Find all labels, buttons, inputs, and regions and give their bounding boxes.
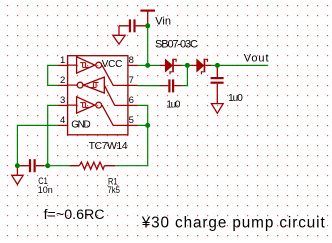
wire D1-D2 node to D2 — [187, 64, 192, 66]
wire R1 to pin 5 riser — [114, 125, 147, 165]
wire node A to C1 — [17, 165, 22, 167]
diode D1 (Schottky) — [160, 59, 182, 75]
svg-text:5: 5 — [129, 115, 134, 126]
svg-text:2: 2 — [60, 75, 65, 86]
wire Vout node to Vout label — [217, 64, 268, 66]
svg-text:Vout: Vout — [244, 53, 269, 65]
svg-text:f=~0.6RC: f=~0.6RC — [44, 207, 105, 222]
wire pin 4 to node A — [17, 125, 58, 165]
wire pins 5-6 loop — [138, 105, 148, 125]
svg-text:¥30 charge pump circuit: ¥30 charge pump circuit — [141, 215, 326, 232]
svg-text:VCC: VCC — [102, 59, 123, 70]
svg-text:1: 1 — [60, 55, 65, 66]
wire pin 7 to pump cap — [138, 85, 161, 87]
wire D2 to Vout node — [210, 64, 217, 66]
wire Vin riser — [147, 26, 149, 66]
junction Vout node — [215, 63, 220, 68]
svg-text:TC7W14: TC7W14 — [89, 140, 128, 152]
svg-text:1u0: 1u0 — [228, 93, 243, 104]
svg-text:3: 3 — [60, 95, 65, 106]
junction node A — [15, 163, 20, 168]
pin 6 lead — [128, 104, 138, 106]
diode D2 (Schottky) — [191, 59, 211, 75]
svg-text:8: 8 — [129, 55, 134, 66]
wire pin 3 to node B — [48, 105, 58, 165]
junction node B — [45, 163, 50, 168]
pin 2 lead — [58, 84, 68, 86]
wire pins 1-2 feedback loop — [48, 65, 58, 85]
svg-text:1u0: 1u0 — [166, 99, 180, 110]
junction pin 8 node — [145, 63, 150, 68]
capacitor (output 1u0) — [211, 66, 224, 103]
svg-text:6: 6 — [129, 95, 134, 106]
junction D1-D2 node — [185, 63, 190, 68]
pin 5 lead — [128, 124, 138, 126]
svg-text:7: 7 — [129, 75, 134, 86]
power symbol Vin — [140, 11, 155, 26]
svg-text:4: 4 — [60, 115, 65, 126]
svg-text:SB07-03C: SB07-03C — [155, 39, 198, 51]
ground (Vin bypass) — [113, 35, 125, 44]
ground (output cap) — [211, 104, 223, 114]
pin 7 lead — [128, 84, 138, 86]
junction Vin node — [145, 23, 150, 28]
wire pin8 node to D1 — [148, 64, 161, 66]
wire pin 8 to Vin node — [138, 64, 148, 66]
inverter gate 2 — [68, 77, 128, 105]
wire C1 to node B — [44, 165, 47, 167]
svg-text:10n: 10n — [38, 185, 53, 196]
pin 4 lead — [58, 124, 68, 126]
wire node B to R1 — [48, 165, 71, 167]
pin 8 lead — [128, 64, 138, 66]
inverter gate 3 — [68, 97, 128, 126]
wire pump cap riser to diode node — [181, 65, 187, 85]
IC U1 TC7W14 body — [68, 56, 128, 135]
wire D1 to D1-D2 node — [181, 64, 188, 66]
capacitor (charge pump 1u0) — [160, 79, 182, 92]
resistor R1 — [70, 162, 115, 169]
svg-text:7k5: 7k5 — [108, 185, 121, 196]
pin 1 lead — [58, 64, 68, 66]
capacitor (Vin bypass) — [119, 19, 146, 35]
svg-text:Vin: Vin — [155, 16, 171, 28]
inverter gate 1 — [68, 57, 128, 86]
junction pin 5 node — [145, 123, 150, 128]
ground (C1) — [12, 166, 23, 184]
pin 3 lead — [58, 104, 68, 106]
svg-text:GND: GND — [71, 120, 91, 131]
capacitor C1 — [20, 159, 44, 172]
